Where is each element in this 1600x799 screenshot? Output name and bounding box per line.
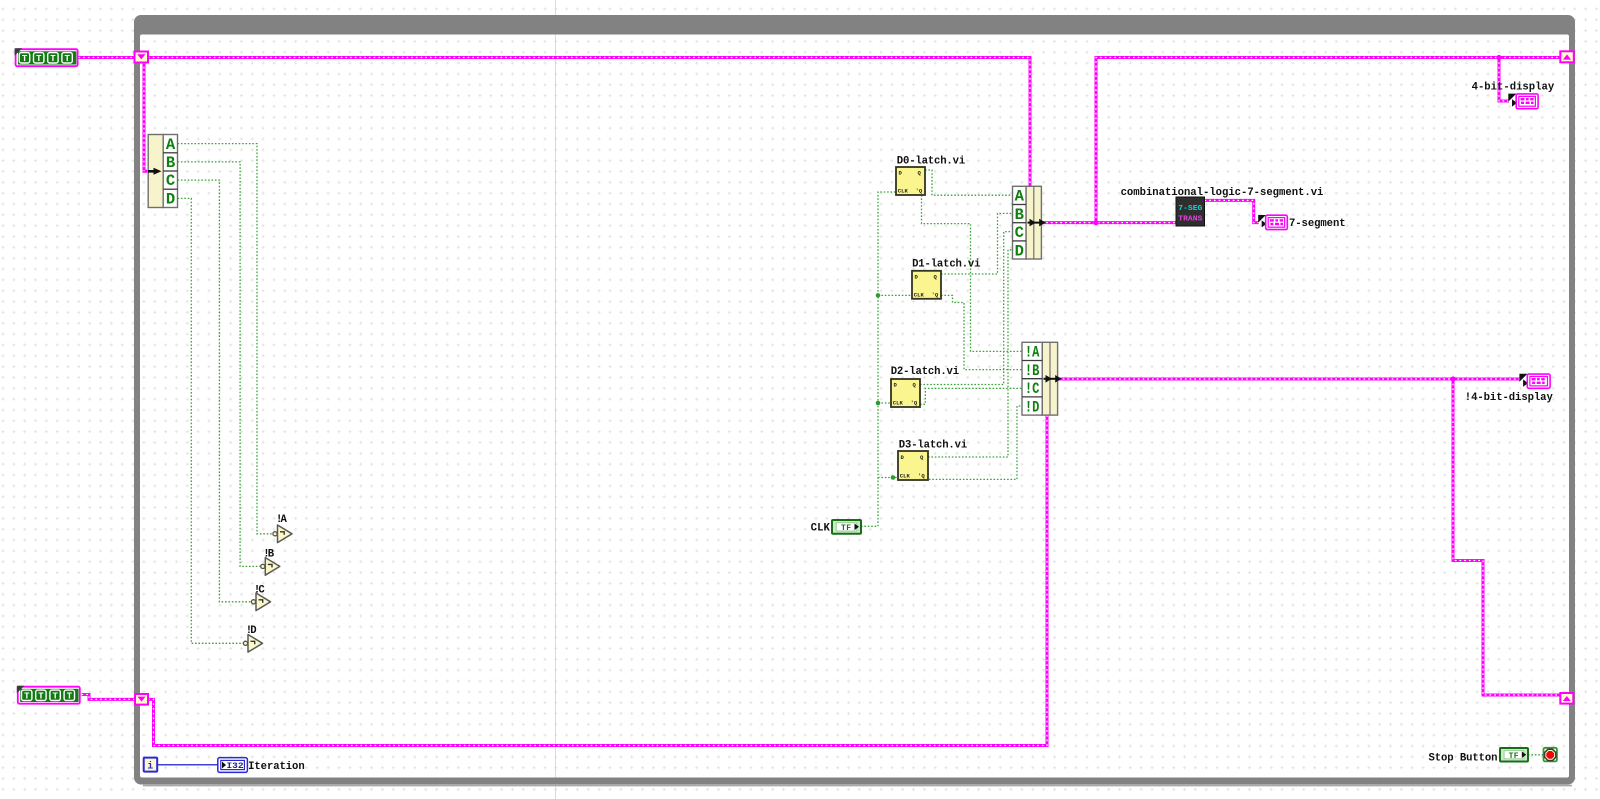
shift register left bottom (down arrow)	[135, 694, 148, 705]
junction node 4-bit-display branch	[1496, 55, 1501, 60]
svg-text:C: C	[166, 172, 175, 190]
wire cluster constant1 to left shift register	[79, 56, 135, 59]
wire CLK branch to D1-latch	[878, 294, 912, 296]
wire D0-latch Q to bundle1 A	[925, 170, 1013, 195]
svg-text:T: T	[22, 54, 28, 64]
svg-text:i: i	[147, 761, 153, 773]
7-segment cluster indicator terminal	[1258, 215, 1287, 230]
svg-text:T: T	[67, 692, 73, 702]
junction node !4-bit-display branch	[1450, 376, 1455, 381]
svg-text:A: A	[1015, 188, 1025, 206]
svg-text:Stop Button: Stop Button	[1429, 752, 1498, 764]
svg-text:D: D	[166, 191, 175, 209]
Stop Button boolean control terminal	[1500, 748, 1528, 762]
wire CLK branch to D3-latch	[878, 477, 898, 479]
svg-text:!B: !B	[263, 548, 274, 560]
svg-text:B: B	[166, 154, 175, 172]
wire left shift register across top to bundle1 cluster input	[148, 58, 1030, 187]
svg-text:!4-bit-display: !4-bit-display	[1465, 392, 1554, 404]
svg-text:A: A	[166, 136, 176, 154]
svg-text:7-SEG: 7-SEG	[1178, 205, 1202, 213]
wire bundle1 output branch up to right shift register	[1096, 58, 1560, 223]
loop condition stop terminal	[1544, 748, 1557, 762]
svg-text:TF: TF	[841, 524, 851, 533]
svg-text:'Q: 'Q	[916, 188, 923, 195]
junction node CLK-D2	[876, 401, 881, 406]
wire unbundle D to NOT gate !D	[178, 198, 244, 643]
wire bundle2 output branch down to right lower shift register	[1453, 379, 1560, 695]
svg-text:D3-latch.vi: D3-latch.vi	[899, 439, 967, 451]
svg-text:!D: !D	[246, 625, 257, 637]
svg-text:'Q: 'Q	[918, 472, 925, 479]
svg-text:'Q: 'Q	[932, 291, 939, 298]
wire CLK trunk	[861, 192, 896, 526]
junction node CLK-D1	[876, 293, 881, 298]
svg-text:4-bit-display: 4-bit-display	[1472, 82, 1555, 94]
svg-text:!D: !D	[1025, 398, 1040, 416]
wire unbundle A to NOT gate !A	[178, 144, 273, 534]
shift register right top (up arrow)	[1560, 51, 1574, 62]
svg-text:D0-latch.vi: D0-latch.vi	[897, 155, 965, 167]
svg-text:combinational-logic-7-segment.: combinational-logic-7-segment.vi	[1121, 187, 1324, 199]
wire 7-seg VI output to 7-segment indicator	[1205, 200, 1260, 222]
while loop frame shadow	[143, 785, 1572, 787]
wire D3-latch notQ to bundle2 !D	[926, 406, 1023, 480]
D1-latch.vi subVI	[912, 271, 941, 299]
svg-text:CLK: CLK	[900, 472, 911, 479]
svg-text:!C: !C	[254, 584, 265, 596]
bundle by name node ABCD	[1013, 186, 1046, 260]
combinational-logic-7-segment.vi subVI icon	[1176, 197, 1205, 226]
svg-text:T: T	[50, 54, 56, 64]
wire CLK branch to D2-latch	[878, 402, 891, 404]
wire unbundle C to NOT gate !C	[178, 180, 252, 602]
D3-latch.vi subVI	[898, 451, 928, 480]
svg-text:CLK: CLK	[914, 291, 925, 298]
iteration terminal i	[144, 758, 158, 773]
svg-text:!C: !C	[1025, 380, 1040, 398]
svg-text:CLK: CLK	[811, 523, 831, 535]
svg-text:T: T	[64, 54, 70, 64]
wire D0-latch notQ to bundle2 !A	[922, 195, 1023, 351]
svg-text:'Q: 'Q	[911, 400, 918, 407]
Iteration I32 indicator terminal	[218, 758, 248, 773]
boolean array constant TTTT (top left)	[15, 48, 78, 66]
wire iteration terminal to Iteration indicator	[158, 764, 219, 766]
svg-text:TRANS: TRANS	[1178, 216, 1202, 224]
svg-text:I32: I32	[227, 761, 244, 771]
svg-text:7-segment: 7-segment	[1289, 218, 1346, 230]
svg-text:D: D	[1015, 242, 1024, 260]
svg-text:T: T	[36, 54, 42, 64]
svg-text:D1-latch.vi: D1-latch.vi	[912, 258, 980, 270]
!4-bit-display cluster indicator terminal	[1519, 374, 1550, 389]
wire D2-latch notQ to bundle2 !C	[920, 388, 1022, 404]
wire branch down to 4-bit-display indicator	[1499, 58, 1509, 102]
svg-text:CLK: CLK	[893, 400, 904, 407]
wire D1-latch Q to bundle1 B	[941, 213, 1013, 274]
junction node CLK-D3	[891, 475, 896, 480]
shift register left top (down arrow)	[135, 52, 149, 63]
NOT gate !C	[251, 593, 270, 611]
svg-text:TF: TF	[1509, 752, 1519, 761]
svg-text:T: T	[24, 692, 30, 702]
wire D2-latch Q to bundle1 C	[920, 232, 1013, 385]
wire cluster constant2 to lower left shift register	[82, 695, 135, 700]
svg-text:!A: !A	[276, 514, 287, 526]
D2-latch.vi subVI	[891, 379, 920, 407]
boolean array constant TTTT (bottom left)	[17, 686, 80, 704]
svg-text:CLK: CLK	[898, 188, 909, 195]
svg-text:B: B	[1015, 206, 1024, 224]
svg-text:!A: !A	[1025, 344, 1040, 362]
svg-text:Iteration: Iteration	[248, 761, 305, 773]
svg-text:T: T	[38, 692, 44, 702]
wire bundle2 output to !4-bit-display indicator	[1058, 378, 1520, 381]
NOT gate !A	[273, 525, 292, 543]
junction node bundle1 branch	[1093, 220, 1098, 225]
svg-text:C: C	[1015, 224, 1024, 242]
wire bundle1 output to 7-seg VI input	[1042, 221, 1177, 224]
wire Stop Button to loop condition	[1528, 754, 1543, 756]
shift register right bottom (up arrow)	[1560, 693, 1573, 704]
wire lower left shift register along bottom to bundle2 cluster input	[148, 415, 1047, 746]
4-bit-display cluster indicator terminal	[1508, 94, 1538, 109]
svg-text:!B: !B	[1025, 362, 1040, 380]
unbundle by name node	[148, 135, 178, 209]
page guide line	[555, 0, 557, 799]
wire D3-latch Q to bundle1 D	[928, 250, 1013, 457]
svg-text:T: T	[52, 692, 58, 702]
svg-text:D2-latch.vi: D2-latch.vi	[891, 366, 959, 378]
bundle by name node !A!B!C!D	[1022, 342, 1062, 416]
wire unbundle B to NOT gate !B	[178, 162, 261, 567]
wire D1-latch notQ to bundle2 !B	[941, 295, 1022, 369]
NOT gate !B	[261, 558, 280, 576]
NOT gate !D	[243, 635, 262, 653]
CLK boolean control terminal	[832, 520, 861, 534]
D0-latch.vi subVI	[896, 167, 925, 195]
wire left shift register down to unbundle input	[144, 62, 147, 171]
